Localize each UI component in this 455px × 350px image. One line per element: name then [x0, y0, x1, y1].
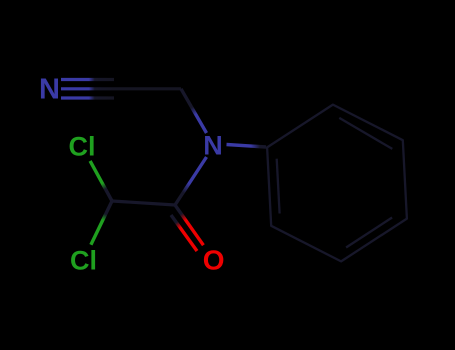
- wire N2-A (N to phenyl ipso carbon): [227, 145, 267, 148]
- wire C4-C5 (carbonyl C to CHCl2 carbon, dark): [112, 201, 175, 205]
- benzene ring (dark carbon hexagon): [267, 105, 407, 262]
- wire C2-C3 (nitrile C to CH2, dark carbon bond): [114, 87, 181, 90]
- wire N2-C4 (N to carbonyl carbon): [175, 157, 207, 205]
- aromatic inner tick F-A (left): [277, 159, 280, 214]
- svg-text:O: O: [203, 245, 225, 276]
- aromatic inner tick D-E (bottom right): [346, 218, 392, 248]
- svg-text:N: N: [39, 73, 60, 105]
- svg-text:N: N: [203, 131, 223, 161]
- wire C5-Cl2 (to lower chlorine): [91, 201, 112, 245]
- svg-text:Cl: Cl: [69, 132, 96, 162]
- wire C5-Cl1 (to upper chlorine): [90, 161, 112, 201]
- triple bond N1#C2 (nitrile, three parallel lines): [61, 80, 114, 99]
- double bond C4=O main line: [175, 205, 203, 245]
- wire C3-N2 (CH2 to amide N): [181, 89, 207, 133]
- aromatic inner tick B-C (top right): [339, 118, 392, 149]
- svg-text:Cl: Cl: [70, 246, 97, 276]
- double bond C4=O inner line: [171, 215, 197, 251]
